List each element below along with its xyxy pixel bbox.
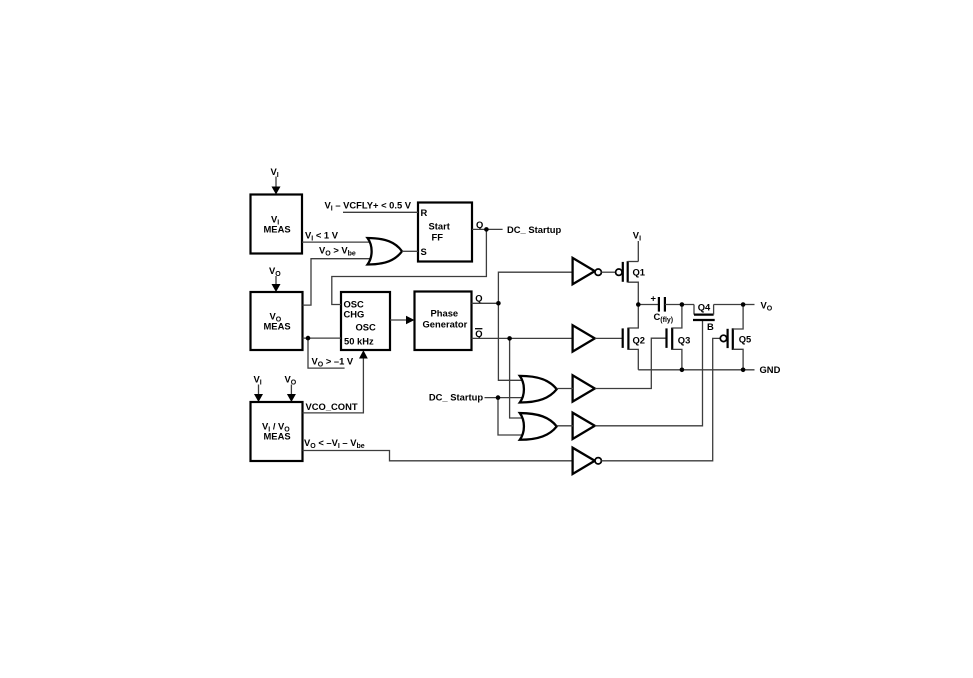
node dot Q5 GND — [741, 368, 746, 373]
svg-text:OSC: OSC — [356, 322, 377, 333]
node dot Qbar bus — [507, 336, 512, 341]
input arrow V_I — [271, 166, 281, 195]
wire V_I < 1 V — [302, 229, 374, 242]
wire V_O MEAS to OSC 50 kHz input — [303, 337, 342, 339]
wire Q output DC_ Startup — [472, 219, 561, 235]
transistor Q4 — [693, 301, 715, 332]
input arrow V_O — [269, 265, 281, 292]
wire R input with label V_I - VCFLY+ < 0.5 V — [325, 199, 419, 212]
svg-text:Q: Q — [476, 219, 483, 230]
wire C(fly) to Q4 — [665, 304, 694, 306]
wire GND rail — [638, 364, 780, 375]
svg-text:MEAS: MEAS — [264, 224, 291, 235]
wire V_O > V_be — [303, 245, 375, 305]
buffer U4 (row 4) — [573, 413, 595, 439]
node dot V_O — [741, 302, 746, 307]
svg-text:Generator: Generator — [423, 319, 468, 330]
wire U4 output to Q4 gate (node B) — [595, 320, 703, 426]
svg-text:Start: Start — [429, 221, 450, 232]
wire G1 output to S — [402, 250, 418, 252]
svg-text:B: B — [707, 321, 714, 332]
wire U3 output to Q3 gate — [595, 338, 667, 388]
svg-text:R: R — [421, 207, 428, 218]
svg-text:Q: Q — [475, 328, 482, 339]
svg-text:Q: Q — [475, 292, 482, 303]
svg-text:GND: GND — [760, 364, 781, 375]
node V_I supply to Q1 — [633, 230, 641, 262]
wire feedback Q to OSC CHG input — [332, 229, 487, 304]
wire U2 output to Q2 gate — [595, 337, 623, 339]
svg-text:Q2: Q2 — [633, 335, 646, 346]
transistor Q5 — [720, 305, 751, 370]
svg-text:Phase: Phase — [431, 308, 459, 319]
svg-text:MEAS: MEAS — [264, 431, 291, 442]
transistor Q1 — [616, 261, 645, 304]
svg-text:Q3: Q3 — [678, 335, 691, 346]
buffer U2 (row 2) — [573, 325, 595, 351]
node dot Q3 GND — [680, 368, 685, 373]
inverter U1 (row 1) — [573, 258, 602, 284]
wire G3 output to U4 — [557, 425, 573, 427]
capacitor C(fly) — [651, 293, 674, 324]
svg-text:+: + — [651, 293, 657, 304]
block V_O MEAS — [251, 292, 303, 350]
svg-text:FF: FF — [432, 232, 444, 243]
or-gate G2 (row 3) — [520, 376, 557, 403]
wire V_O < -V_I - V_be — [303, 437, 574, 461]
input arrow V_O (to V_I/V_O MEAS) — [285, 374, 297, 403]
wire Qbar bus from Phase Generator — [472, 328, 574, 418]
wire V_O terminal — [743, 299, 773, 312]
svg-text:50 kHz: 50 kHz — [344, 336, 374, 347]
svg-text:VCO_CONT: VCO_CONT — [306, 401, 358, 412]
input arrow V_I (to V_I/V_O MEAS) — [254, 374, 264, 403]
svg-text:DC_ Startup: DC_ Startup — [429, 391, 483, 402]
node dot Q1 drain — [636, 302, 641, 307]
node dot V_O MEAS output — [306, 336, 311, 341]
wire DC_ Startup bus to OR gates — [429, 391, 527, 435]
or-gate G1 (Start FF S input) — [368, 238, 403, 265]
svg-text:Q1: Q1 — [633, 266, 646, 277]
svg-text:MEAS: MEAS — [264, 321, 291, 332]
buffer U3 (row 3) — [573, 375, 595, 401]
svg-text:DC_ Startup: DC_ Startup — [507, 224, 561, 235]
block V_I MEAS — [251, 195, 303, 254]
transistor Q2 — [623, 305, 645, 370]
wire Q1 drain to C(fly) — [638, 304, 659, 306]
node dot C(fly) right — [680, 302, 685, 307]
wire U1 output to Q1 gate — [601, 271, 615, 273]
or-gate G3 (row 4) — [520, 413, 557, 440]
svg-text:CHG: CHG — [344, 309, 365, 320]
node dot Start FF Q — [484, 227, 489, 232]
wire Q4 to V_O node — [714, 304, 744, 306]
block V_I / V_O MEAS — [251, 402, 303, 461]
svg-text:S: S — [421, 246, 427, 257]
svg-text:Q5: Q5 — [739, 334, 752, 345]
node dot Q bus — [496, 301, 501, 306]
svg-text:Q4: Q4 — [698, 301, 711, 312]
wire VCO_CONT — [303, 350, 368, 413]
inverter U5 (row 5) — [573, 448, 602, 474]
wire U5 output to Q5 gate — [601, 338, 720, 460]
wire G2 output to U3 — [557, 388, 573, 390]
block Phase Generator — [415, 292, 472, 351]
block Start FF — [418, 203, 472, 262]
block OSC 50 kHz — [341, 292, 390, 350]
transistor Q3 — [667, 305, 691, 370]
stub V_O > -1 V — [308, 338, 354, 369]
wire Q bus from Phase Generator — [472, 272, 574, 380]
node dot DC_ Startup bus — [496, 395, 501, 400]
wire OSC to Phase Generator — [390, 316, 415, 324]
